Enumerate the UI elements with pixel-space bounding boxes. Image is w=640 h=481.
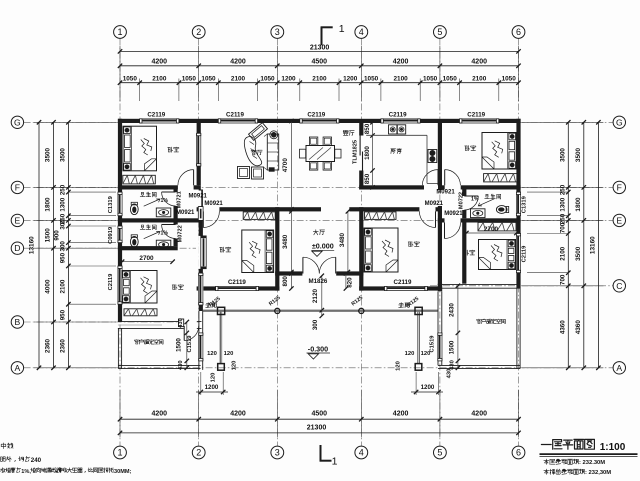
title note line2 本栋总建筑面积 232,30M	[544, 469, 585, 474]
svg-text:120: 120	[207, 351, 217, 357]
svg-text:M0921: M0921	[204, 201, 223, 207]
right wing west wall hollow	[437, 292, 439, 366]
left wing east wall lower (hollow)	[198, 311, 200, 370]
room label hall 大厅	[313, 230, 324, 235]
svg-text:1:100: 1:100	[600, 442, 626, 453]
bathroom west wall right	[462, 190, 466, 219]
wardrobe wing bedroom	[124, 309, 157, 316]
room label bedroom top-right 卧室	[465, 146, 476, 151]
svg-text:C2119: C2119	[389, 112, 407, 119]
svg-text:C2119: C2119	[108, 273, 114, 291]
basin bathroom1	[156, 208, 171, 217]
svg-text:1%,: 1%,	[21, 469, 31, 475]
svg-text:2: 2	[196, 27, 201, 37]
bottom dimension lines	[119, 390, 121, 437]
note line3 水坡度为1% ...	[0, 468, 20, 473]
door gap entrance M1826	[302, 271, 336, 276]
bed bedroom top-right	[482, 133, 516, 170]
porch 1200 dimension right	[415, 372, 417, 395]
interior wall axis3 (hall west)	[275, 207, 279, 290]
door gap kitchen (F wall)	[424, 185, 438, 190]
door gap bedroom bay2-3 (corridor wall)	[203, 207, 219, 212]
porch stub left bottom	[218, 364, 225, 371]
svg-text:1: 1	[117, 448, 122, 458]
dim 2700 wing bedroom	[122, 261, 173, 263]
svg-text:120: 120	[405, 351, 415, 357]
room label bathroom right 卫生间	[485, 194, 501, 199]
living room corner table (dark circle)	[270, 131, 278, 139]
exterior wall left hollow part (unbuilt room)	[117, 328, 119, 368]
svg-text:C2119: C2119	[307, 112, 325, 119]
porch 1200 dimension left	[200, 372, 202, 395]
svg-text:1800: 1800	[364, 146, 371, 160]
svg-text:3480: 3480	[282, 234, 289, 249]
porch column axis4	[359, 308, 364, 313]
svg-text:1: 1	[117, 27, 122, 37]
exterior wall right hollow part (unbuilt room)	[516, 288, 518, 369]
svg-text:M0921: M0921	[425, 201, 444, 207]
svg-text:1050: 1050	[364, 75, 379, 82]
interior wall axis2 upper (bedroom1 / living)	[197, 123, 201, 185]
svg-text:120: 120	[224, 351, 234, 357]
wardrobe bedroom1	[123, 175, 156, 184]
svg-text:B: B	[15, 317, 21, 327]
corridor south wall right (bedroom bay4-5 north)	[349, 207, 442, 211]
svg-text:C2119: C2119	[147, 112, 165, 119]
door M0721 bedroom1	[193, 170, 195, 186]
kitchen sink	[389, 125, 397, 134]
corridor south wall left (bedroom bay2-3 north)	[197, 207, 321, 211]
dim 4700 living room	[290, 121, 292, 209]
axis circles top 1-6	[114, 26, 127, 39]
svg-text:30MM;: 30MM;	[114, 469, 132, 475]
svg-text:3480: 3480	[339, 232, 346, 247]
svg-text:C2119: C2119	[394, 279, 412, 286]
svg-text:120: 120	[211, 373, 217, 383]
svg-text:G: G	[616, 117, 623, 127]
svg-text:3500: 3500	[45, 147, 52, 162]
bottom-right room south wall (axis A, hollow)	[438, 364, 520, 366]
living room armchairs	[238, 167, 250, 179]
svg-text:1: 1	[339, 23, 345, 35]
svg-text:250: 250	[560, 213, 567, 224]
svg-text:430: 430	[450, 360, 456, 370]
svg-text:1800: 1800	[575, 197, 582, 212]
exterior wall left (axis 1) solid part	[118, 119, 122, 322]
svg-text:2100: 2100	[60, 279, 67, 293]
svg-text:1200: 1200	[281, 75, 296, 82]
svg-text:5: 5	[437, 27, 442, 37]
dim 850 1800 850 kitchen	[372, 122, 374, 187]
svg-text:4360: 4360	[560, 320, 567, 334]
door gap bedroom bay4-5 (corridor wall)	[419, 207, 435, 212]
door M0921 bedroom bay5-6	[444, 170, 446, 186]
window axis2 wall upper	[196, 133, 201, 166]
wardrobe bedroom top-right	[484, 174, 518, 182]
svg-text:1050: 1050	[443, 75, 458, 82]
svg-text:430: 430	[178, 360, 184, 370]
exterior wall top (axis G)	[118, 119, 521, 123]
corridor labels 走廊	[206, 303, 217, 308]
wall C dark stub at west end	[438, 284, 442, 292]
svg-text:2100: 2100	[393, 75, 408, 82]
svg-text:13160: 13160	[590, 236, 597, 254]
wardrobe bedroom EC	[478, 222, 516, 231]
svg-text:C2119: C2119	[226, 112, 244, 119]
svg-text:4200: 4200	[393, 59, 409, 66]
svg-text:13160: 13160	[29, 236, 36, 254]
room label bedroom bay4-5 卧室	[408, 242, 419, 247]
room label bottom-left 客户确定空间	[134, 340, 163, 345]
toilet bathroom right	[496, 206, 508, 214]
porch column axis3	[275, 308, 280, 313]
door gap bedroom EC (E wall)	[445, 218, 461, 223]
svg-text:1500: 1500	[45, 228, 52, 243]
kitchen counter	[366, 134, 427, 136]
svg-text:1500: 1500	[449, 340, 456, 354]
axis circles right G F E C A	[613, 116, 625, 128]
double entrance door M1826	[302, 257, 304, 273]
svg-text:1050: 1050	[260, 75, 275, 82]
room label bedroom bay2-3 卧室	[220, 247, 231, 252]
svg-text:2430: 2430	[449, 303, 456, 317]
svg-text:C: C	[616, 281, 622, 291]
svg-text:2700: 2700	[139, 255, 154, 262]
svg-text:4200: 4200	[471, 59, 487, 66]
svg-text:4200: 4200	[471, 411, 487, 418]
svg-text:A: A	[616, 363, 622, 373]
svg-text:430: 430	[447, 369, 453, 379]
svg-text:1500: 1500	[175, 338, 182, 352]
svg-text:4200: 4200	[393, 411, 409, 418]
door gap bathroom right	[462, 196, 467, 210]
svg-text:3: 3	[275, 27, 280, 37]
svg-text:1050: 1050	[423, 75, 438, 82]
svg-text:C0919: C0919	[108, 226, 114, 244]
svg-text:1300: 1300	[560, 197, 567, 211]
svg-text:2: 2	[196, 448, 201, 458]
svg-text:4200: 4200	[230, 411, 246, 418]
svg-text:C2119: C2119	[467, 112, 485, 119]
svg-text:1: 1	[332, 455, 338, 467]
svg-text:4200: 4200	[230, 59, 246, 66]
svg-text:C1519: C1519	[187, 335, 193, 353]
svg-text:6: 6	[516, 448, 521, 458]
wall F left (bathrooms top)	[118, 185, 201, 189]
window C1519 right wing	[437, 333, 442, 361]
svg-text:4500: 4500	[312, 411, 328, 418]
bed wing bedroom left	[122, 271, 157, 304]
svg-text:850: 850	[364, 173, 371, 184]
door gap bathroom1 left	[173, 192, 178, 206]
svg-text:4200: 4200	[152, 411, 168, 418]
svg-text:2100: 2100	[152, 75, 167, 82]
svg-text:F: F	[15, 182, 20, 192]
svg-text:2100: 2100	[231, 75, 246, 82]
svg-text:M0921: M0921	[189, 193, 208, 199]
room label bathroom2 卫生间	[140, 225, 156, 230]
svg-text:C2119: C2119	[522, 245, 528, 263]
wall C right (bottom-right room top, hollow)	[438, 283, 520, 285]
svg-text:1%: 1%	[161, 230, 169, 236]
living room end table dark	[269, 167, 275, 171]
top dimension lines	[119, 46, 121, 102]
window C1519 left wing	[198, 333, 203, 361]
dim 3480 hall east	[347, 211, 349, 272]
svg-text:1200: 1200	[421, 384, 435, 391]
bedroom bay4-5 south wall	[359, 286, 442, 290]
svg-text:3: 3	[275, 448, 280, 458]
svg-text:2360: 2360	[45, 338, 52, 353]
note line1 中线	[1, 443, 13, 449]
dim 2430 1500 430 right wing	[457, 286, 459, 368]
wardrobe bedroom bay2-3	[243, 212, 275, 220]
svg-text:240: 240	[31, 457, 42, 464]
section mark 1 bottom	[320, 445, 322, 462]
title 一层平面图	[541, 439, 594, 449]
svg-text:21300: 21300	[307, 425, 327, 432]
bedroom EC west wall	[462, 223, 466, 284]
door gap bedroom bay5-6 (F wall)	[445, 185, 461, 190]
svg-text:TLM1825: TLM1825	[353, 140, 359, 164]
svg-text:250: 250	[560, 184, 567, 195]
svg-text:300: 300	[60, 219, 67, 230]
bedroom bay2-3 south wall	[197, 286, 280, 290]
door gap bathroom2 left	[173, 225, 178, 239]
porch column left	[218, 307, 225, 314]
svg-text:900: 900	[54, 230, 61, 241]
door bottom-left room	[183, 326, 185, 341]
wall D left (wing bedroom top)	[118, 246, 178, 250]
window C2119 bay2 top	[218, 118, 257, 123]
door M0921 bedroom bay2-3	[202, 211, 204, 227]
title note line1 本层建筑面积 232.30M	[544, 459, 579, 464]
interior wall axis4 kitchen west	[359, 123, 363, 190]
door gap bottom-left room (B wall)	[184, 320, 197, 329]
svg-text:2120: 2120	[312, 288, 319, 303]
wall E left (between bathrooms)	[118, 218, 201, 222]
dim 3480 hall west	[290, 211, 292, 272]
window C2119 bedroom bay4-5 south	[385, 286, 428, 291]
left wing east wall upper (solid)	[199, 190, 203, 312]
window C2119 bay3 top	[300, 118, 339, 123]
svg-text:-0.300: -0.300	[308, 344, 328, 353]
window C2119 left wall wing bedroom	[117, 266, 122, 304]
window C0919 left wall	[117, 226, 122, 243]
note line2 明外 均为240	[1, 456, 30, 461]
window C2119 right wall	[516, 234, 521, 273]
bed bedroom bay4-5	[364, 228, 398, 272]
door gap corridor to minicorr left (axis2)	[196, 191, 201, 207]
svg-text:: 232,30M: : 232,30M	[585, 470, 611, 476]
dining chairs	[309, 137, 317, 145]
svg-text:1300: 1300	[60, 197, 67, 211]
dim 800 jog left	[290, 274, 292, 289]
svg-text:3500: 3500	[575, 147, 582, 162]
svg-text:1050: 1050	[123, 75, 138, 82]
bed bedroom1 top-left	[123, 126, 157, 171]
svg-text:6: 6	[516, 27, 521, 37]
svg-text:4200: 4200	[152, 59, 168, 66]
svg-text:4700: 4700	[282, 158, 289, 173]
svg-text:M0921: M0921	[444, 211, 463, 217]
svg-text:M1826: M1826	[308, 278, 327, 285]
svg-text:M0721: M0721	[176, 191, 182, 208]
dim 300 porch	[321, 310, 323, 316]
svg-text:120: 120	[231, 361, 237, 371]
svg-text:2700: 2700	[484, 226, 499, 233]
svg-text:5: 5	[437, 448, 442, 458]
svg-text:950: 950	[60, 309, 67, 320]
porch stub right bottom	[415, 364, 422, 371]
svg-text:M0921: M0921	[436, 190, 455, 196]
svg-text:3500: 3500	[575, 246, 582, 261]
veranda side edge right	[417, 312, 419, 364]
svg-text:E: E	[15, 215, 21, 225]
svg-text:D: D	[14, 243, 20, 253]
living room sofa (vertical)	[267, 134, 278, 170]
svg-text:4360: 4360	[575, 320, 582, 335]
bed bedroom bay2-3	[242, 230, 274, 273]
kitchen stove	[428, 150, 437, 163]
svg-text:C2119: C2119	[228, 279, 246, 286]
svg-text:1%: 1%	[161, 198, 169, 204]
living room TV cabinet (rotated)	[249, 123, 268, 141]
svg-text:430: 430	[178, 318, 184, 328]
interior wall axis4 lower (hall east)	[359, 207, 363, 290]
dim 2700 bedroom EC	[466, 232, 516, 234]
svg-text:2100: 2100	[472, 75, 487, 82]
right dimension lines	[522, 121, 603, 123]
section mark 1 top	[321, 27, 323, 45]
svg-text:820: 820	[346, 277, 353, 288]
basin bathroom right	[471, 209, 486, 218]
svg-text:4: 4	[359, 27, 364, 37]
dim 2120 porch center	[321, 276, 323, 310]
toilet bathroom1	[130, 202, 138, 214]
left dimension lines	[34, 121, 116, 123]
basin bathroom2	[156, 240, 171, 249]
door bathroom right	[464, 195, 478, 197]
window C2119 bay4 top	[381, 118, 420, 123]
svg-text:F: F	[617, 182, 622, 192]
svg-text:M0722: M0722	[459, 192, 465, 209]
door M0921 kitchen	[437, 170, 439, 186]
wall B left (bottom-left room top, hollow partition)	[118, 321, 202, 323]
hall south wall with entrance	[275, 271, 363, 275]
svg-text:1200: 1200	[343, 75, 358, 82]
svg-text:1200: 1200	[205, 384, 219, 391]
svg-text:2100: 2100	[560, 246, 567, 260]
svg-text:M0921: M0921	[176, 210, 195, 216]
svg-text:1050: 1050	[182, 75, 197, 82]
bottom-left room south wall (axis A, hollow)	[118, 364, 200, 366]
window C2119 bay5 top	[460, 118, 499, 123]
wall F kitchen bottom and right wing top	[359, 185, 520, 189]
title underline	[540, 453, 638, 455]
wardrobe bedroom bay4-5	[365, 212, 397, 220]
svg-text:4000: 4000	[45, 279, 52, 294]
svg-text:G: G	[14, 117, 21, 127]
door bathroom2	[162, 224, 176, 226]
svg-text:C1319: C1319	[522, 195, 528, 213]
dim 820 jog right	[345, 274, 347, 289]
window C2119 bay1 top	[140, 118, 179, 123]
veranda side edge left	[219, 312, 221, 364]
svg-text:300: 300	[312, 319, 319, 330]
room label bottom-right 客户确定空间	[477, 319, 506, 324]
door gap bedroom1 (F wall)	[178, 185, 194, 190]
svg-text:±0.000: ±0.000	[312, 242, 334, 251]
svg-text:1%: 1%	[471, 196, 479, 202]
bed bedroom EC right	[479, 240, 516, 270]
window C1319 right wall	[516, 192, 521, 216]
svg-text:: 232.30M: : 232.30M	[579, 460, 605, 466]
svg-text:700: 700	[560, 222, 567, 233]
room label dining 餐厅	[343, 131, 354, 136]
door frame band wing wall top	[198, 207, 203, 221]
svg-text:800: 800	[282, 276, 289, 287]
svg-text:1800: 1800	[45, 197, 52, 212]
window band bay2-3 west wall	[198, 236, 206, 269]
svg-text:120: 120	[396, 361, 402, 371]
svg-text:300: 300	[60, 241, 67, 252]
veranda edge lines	[203, 309, 438, 311]
svg-text:250: 250	[60, 184, 67, 195]
room label bathroom1 卫生间	[140, 192, 156, 197]
window C1319 left wall	[117, 192, 122, 216]
room label living 客厅	[251, 150, 262, 155]
door M0921 bedroom EC	[444, 223, 446, 239]
svg-text:C1319: C1319	[108, 195, 114, 213]
dim 430 1500 430 left wing	[186, 322, 188, 368]
svg-text:850: 850	[364, 123, 371, 134]
interior wall axis5 (kitchen east / bedrooms)	[438, 123, 442, 190]
dining table	[306, 146, 335, 162]
window wing east wall to veranda	[198, 273, 203, 305]
sliding door TLM1825 on axis4	[359, 136, 364, 171]
slope arrows 1%	[144, 199, 160, 206]
svg-text:A: A	[15, 363, 21, 373]
svg-text:21300: 21300	[310, 44, 330, 51]
axis circles left G F E D B A	[11, 116, 23, 128]
axis circles bottom 1-6	[114, 446, 127, 459]
door bathroom1	[162, 191, 176, 193]
svg-text:950: 950	[60, 252, 67, 263]
svg-text:C1519: C1519	[430, 335, 436, 353]
axis grid lines	[119, 39, 121, 447]
svg-text:3500: 3500	[60, 148, 67, 162]
svg-text:4: 4	[359, 448, 364, 458]
door M0921 bedroom bay4-5	[435, 211, 437, 227]
exterior wall right (axis 6) solid part	[516, 119, 520, 288]
svg-text:E: E	[616, 215, 622, 225]
porch column right	[415, 307, 422, 314]
svg-text:1050: 1050	[502, 75, 517, 82]
door jamb post B wall	[179, 319, 184, 327]
wall E right (bathroom bottom)	[438, 218, 521, 222]
svg-text:3500: 3500	[560, 148, 567, 162]
bathrooms east wall left	[174, 190, 178, 247]
room label bedroom EC 卧室	[464, 250, 475, 255]
room label kitchen 厨房	[391, 149, 402, 154]
window C2119 bedroom bay2-3 south	[216, 286, 259, 291]
room label bedroom1 卧室	[168, 147, 179, 152]
svg-text:700: 700	[560, 274, 567, 285]
room label wing bedroom 卧室	[172, 285, 183, 290]
svg-text:2100: 2100	[312, 75, 327, 82]
svg-text:4500: 4500	[312, 59, 328, 66]
